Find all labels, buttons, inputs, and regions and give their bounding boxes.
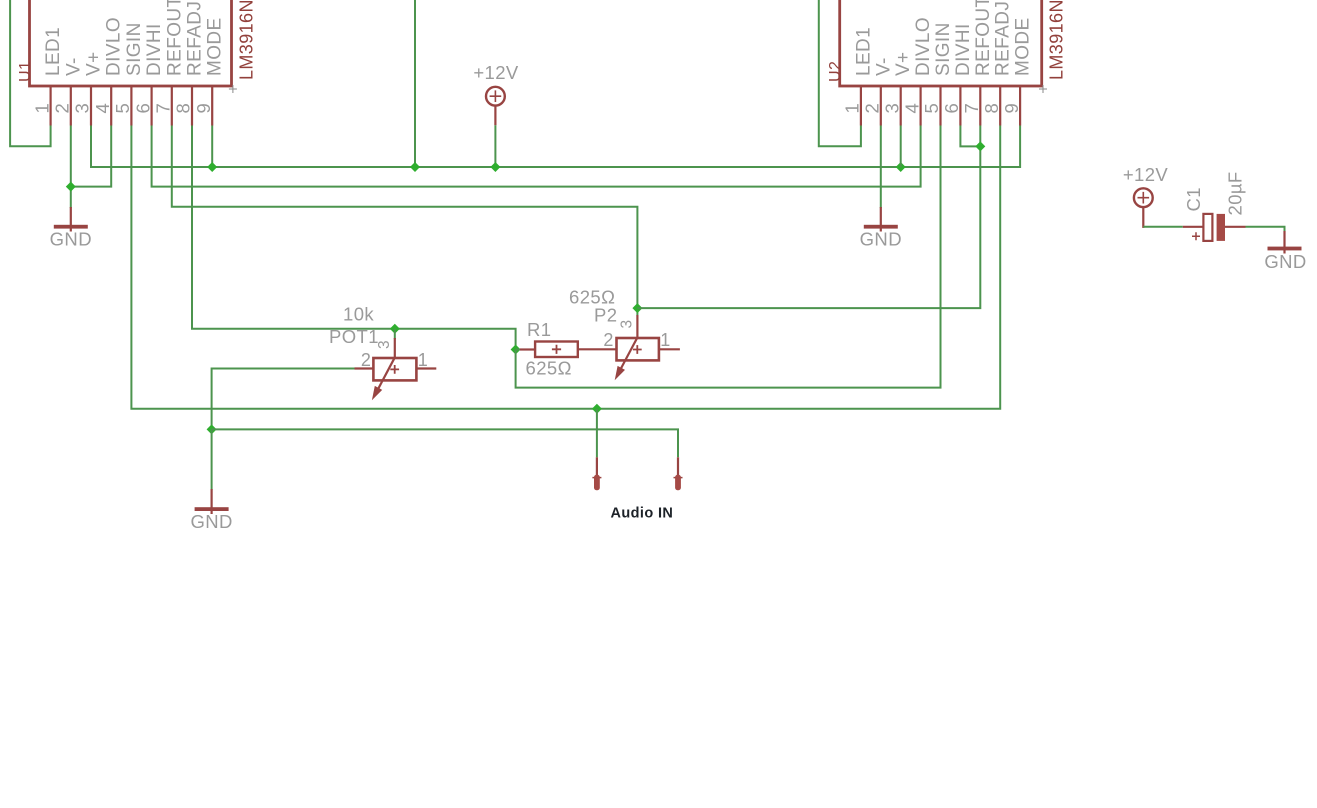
capacitor C1 (1183, 171, 1246, 241)
op-amp U1 LM3916N box (30, 0, 232, 86)
wire +12V to H1 (494, 125, 496, 167)
wire U2 pin2 down to GND (880, 126, 882, 209)
wire bottom GND drop (211, 429, 213, 490)
svg-text:6: 6 (941, 103, 962, 114)
node junction bottom GND (207, 424, 217, 434)
ground GND4 (C1) (1264, 231, 1306, 272)
svg-text:3: 3 (619, 319, 636, 328)
+12V pin stub (494, 106, 496, 126)
U2 pin 7 stub (979, 86, 981, 126)
svg-text:U2: U2 (827, 61, 844, 82)
POT1 pin3 stub (394, 338, 396, 359)
svg-text:LM3916N: LM3916N (237, 0, 257, 80)
svg-text:REFOUT: REFOUT (973, 0, 994, 76)
svg-text:LED1: LED1 (853, 27, 874, 76)
svg-text:REFOUT: REFOUT (164, 0, 185, 76)
svg-text:2: 2 (862, 103, 883, 114)
svg-text:V+: V+ (84, 51, 105, 76)
+12V right pin stub (1142, 207, 1144, 228)
svg-text:LM3916N: LM3916N (1047, 0, 1067, 80)
wire C1 to GND (1246, 227, 1285, 232)
svg-text:V-: V- (873, 57, 894, 76)
svg-text:8: 8 (981, 103, 1002, 114)
svg-text:P2: P2 (594, 305, 617, 326)
node junction H1/U1 pin9 (207, 162, 217, 172)
svg-text:3: 3 (72, 103, 93, 114)
U2 pin 8 stub (999, 86, 1001, 126)
svg-text:Audio IN: Audio IN (611, 506, 674, 522)
svg-text:2: 2 (603, 330, 613, 350)
R1 body (535, 342, 578, 358)
svg-text:7: 7 (961, 103, 982, 114)
P2 pin2 stub (also R1 right stub) (578, 348, 617, 350)
wire net H5: U1 pin8 to R1 left (192, 126, 516, 350)
potentiometer POT1 (329, 304, 436, 401)
wire net H3: U1 pin7 to P2 pin3 (172, 126, 638, 316)
svg-text:5: 5 (112, 103, 133, 114)
svg-text:REFADJ: REFADJ (185, 1, 206, 76)
wire R1 left link (516, 349, 521, 351)
svg-text:C1: C1 (1183, 187, 1204, 211)
svg-text:R1: R1 (527, 319, 551, 340)
U1 pin 5 stub (130, 86, 132, 126)
svg-text:4: 4 (92, 103, 113, 114)
svg-text:625Ω: 625Ω (526, 358, 572, 379)
node junction P2 pin3 (632, 303, 642, 313)
wire net H1: U1 pin3 across to U2 pin9 (91, 126, 1020, 168)
op-amp U2 LM3916N box (840, 0, 1042, 86)
svg-text:+12V: +12V (1123, 164, 1169, 185)
C1 polarity plus (1192, 232, 1200, 240)
wire net H7 to audio pin2 (212, 429, 678, 457)
wire +12V to C1 (1143, 226, 1183, 228)
ground GND1 (U1) (70, 207, 72, 232)
svg-text:SIGIN: SIGIN (124, 22, 145, 76)
U1 pin 2 stub (70, 86, 72, 126)
svg-text:U1: U1 (17, 61, 34, 82)
svg-text:DIVLO: DIVLO (104, 17, 125, 76)
wire net H6: U1 pin5 across to U2 pin8 (131, 126, 1000, 409)
U1 pin 9 stub (211, 86, 213, 126)
svg-text:REFADJ: REFADJ (993, 1, 1014, 76)
svg-text:DIVLO: DIVLO (913, 17, 934, 76)
node junction U2 pin6/pin7 (975, 141, 985, 151)
P2 wiper arrow (621, 338, 637, 368)
node junction H1/top vertical (410, 162, 420, 172)
C1 left pin stub (1183, 226, 1204, 228)
POT1 body (373, 358, 416, 380)
U2 pin 1 stub (860, 86, 862, 126)
svg-text:4: 4 (901, 103, 922, 114)
wire U1 pin1 loop to top edge (10, 0, 51, 146)
U1 pin 1 stub (49, 86, 51, 126)
P2 body (617, 338, 659, 360)
svg-text:GND: GND (860, 229, 902, 250)
connector audio pin 2 (674, 457, 683, 490)
wire net H2: U1 pin6 across to U2 pin4 (152, 126, 921, 187)
svg-text:GND: GND (1264, 251, 1306, 272)
C1 negative plate (1217, 214, 1225, 241)
wire P2 junction to U2 pin7 (637, 126, 980, 309)
U2 pin 4 stub (919, 86, 921, 126)
svg-text:SIGIN: SIGIN (933, 22, 954, 76)
wire U1 pin2 down to GND (70, 126, 72, 209)
connector audio pin 1 (592, 457, 601, 490)
svg-text:GND: GND (190, 511, 232, 532)
U1 origin cross (229, 85, 237, 93)
svg-text:LED1: LED1 (43, 27, 64, 76)
wire U2 pin3 drop (900, 126, 902, 168)
wire U1 pin9 drop (211, 126, 213, 168)
node junction H6/audio drop (592, 404, 602, 414)
svg-text:+12V: +12V (473, 62, 519, 83)
U1 pin 8 stub (191, 86, 193, 126)
svg-text:2: 2 (52, 103, 73, 114)
wire audio pin1 drop (596, 409, 598, 458)
U2 pin 5 stub (939, 86, 941, 126)
U2 pin 9 stub (1019, 86, 1021, 126)
supply +12V symbol (right, C1) (1123, 164, 1169, 228)
svg-text:1: 1 (31, 103, 52, 114)
resistor R1 (520, 319, 578, 379)
svg-text:7: 7 (153, 103, 174, 114)
wire U1 pin4 jog to pin2 (71, 126, 111, 187)
C1 right pin stub (1225, 226, 1246, 228)
U2 pin 6 stub (959, 86, 961, 126)
U1 pin 3 stub (90, 86, 92, 126)
svg-text:5: 5 (921, 103, 942, 114)
svg-text:1: 1 (842, 103, 863, 114)
svg-text:GND: GND (50, 229, 92, 250)
U2 pin 2 stub (880, 86, 882, 126)
svg-text:10k: 10k (343, 304, 374, 325)
svg-text:9: 9 (1001, 103, 1022, 114)
POT1 pin1 stub (416, 367, 436, 369)
svg-text:3: 3 (881, 103, 902, 114)
P2 pin3 stub (636, 315, 638, 338)
svg-text:9: 9 (193, 103, 214, 114)
R1 left stub (520, 348, 535, 350)
node junction U1 pin2/pin4 (66, 182, 76, 192)
U2 pin 3 stub (900, 86, 902, 126)
svg-text:MODE: MODE (1013, 17, 1034, 76)
svg-text:20µF: 20µF (1225, 171, 1246, 215)
node junction R1 left (511, 345, 521, 355)
svg-text:1: 1 (660, 330, 670, 350)
svg-text:POT1: POT1 (329, 326, 379, 347)
U1 pin 4 stub (110, 86, 112, 126)
U1 pin 6 stub (151, 86, 153, 126)
C1 positive plate (1203, 214, 1212, 241)
POT1 wiper arrow (378, 358, 394, 389)
wire vertical from top edge to H1 (414, 0, 416, 167)
U2 origin cross (1039, 85, 1047, 93)
wire POT1 pin2 run to GND column (212, 369, 355, 430)
svg-text:V-: V- (63, 57, 84, 76)
wire U2 pin6 jog to pin7 (960, 126, 980, 147)
svg-text:3: 3 (376, 340, 393, 349)
ground GND2 (bottom) (211, 489, 213, 514)
supply +12V symbol (middle) (486, 87, 505, 106)
svg-text:DIVHI: DIVHI (953, 23, 974, 76)
wire net H4: R1 junction down and across to U2 pin5 (516, 126, 941, 388)
U1 pin 7 stub (171, 86, 173, 126)
wire POT1 pin3 link (394, 329, 396, 339)
svg-text:8: 8 (173, 103, 194, 114)
P2 pin1 stub (659, 348, 680, 350)
svg-text:DIVHI: DIVHI (144, 23, 165, 76)
node junction H1/+12V (490, 162, 500, 172)
wire U2 pin1 loop to top edge (819, 0, 861, 146)
svg-text:2: 2 (361, 350, 371, 370)
node junction H1/U2 pin3 (896, 162, 906, 172)
svg-text:MODE: MODE (205, 17, 226, 76)
potentiometer P2 (569, 287, 680, 381)
POT1 pin2 stub (355, 367, 374, 369)
svg-text:V+: V+ (893, 51, 914, 76)
svg-text:1: 1 (418, 350, 428, 370)
ground GND3 (U2) (880, 207, 882, 232)
svg-text:6: 6 (132, 103, 153, 114)
node junction POT1 pin3 (390, 324, 400, 334)
